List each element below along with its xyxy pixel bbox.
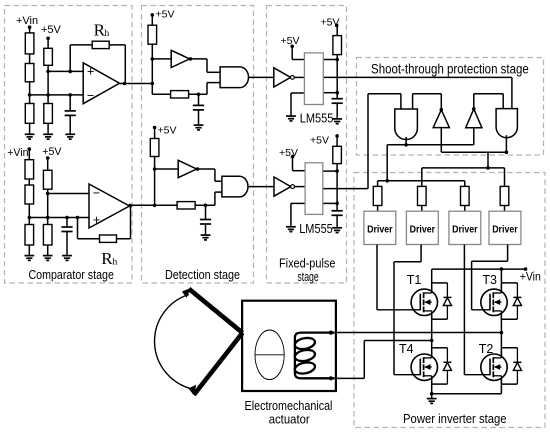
svg-text:+: + (87, 65, 94, 79)
svg-text:+5V: +5V (158, 125, 177, 137)
svg-text:Driver: Driver (452, 224, 478, 235)
svg-text:T2: T2 (479, 342, 494, 356)
svg-text:Power inverter stage: Power inverter stage (403, 411, 507, 426)
svg-text:stage: stage (297, 269, 318, 284)
svg-text:T1: T1 (407, 273, 422, 287)
svg-text:R: R (101, 249, 113, 268)
svg-text:−: − (87, 89, 94, 103)
svg-text:Shoot-through protection stage: Shoot-through protection stage (371, 62, 529, 77)
svg-text:+5V: +5V (42, 146, 62, 158)
svg-text:h: h (105, 29, 110, 39)
svg-text:−: − (93, 186, 100, 200)
svg-text:Driver: Driver (492, 224, 518, 235)
svg-text:+Vin: +Vin (16, 15, 38, 27)
svg-text:actuator: actuator (269, 412, 311, 427)
svg-text:Detection stage: Detection stage (165, 267, 240, 282)
svg-text:+Vin: +Vin (7, 147, 28, 159)
svg-text:+5V: +5V (310, 135, 329, 147)
svg-text:+5V: +5V (321, 17, 340, 29)
svg-text:T3: T3 (482, 273, 497, 287)
svg-text:+Vin: +Vin (520, 271, 541, 283)
svg-text:Driver: Driver (410, 224, 436, 235)
svg-text:+5V: +5V (156, 9, 175, 21)
svg-text:+: + (93, 213, 100, 227)
svg-text:LM555: LM555 (299, 221, 333, 236)
svg-text:Comparator stage: Comparator stage (28, 267, 114, 282)
svg-text:LM555: LM555 (300, 111, 334, 126)
svg-text:+5V: +5V (279, 147, 298, 159)
svg-text:Driver: Driver (367, 224, 393, 235)
svg-text:T4: T4 (399, 342, 414, 356)
svg-text:+5V: +5V (41, 24, 62, 36)
svg-text:+5V: +5V (281, 35, 300, 47)
